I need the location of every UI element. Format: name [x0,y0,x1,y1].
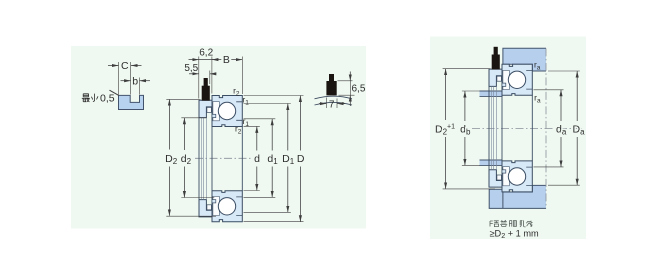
impulse ring [207,107,212,112]
note 端盖的孔径 (drawn glyphs) [490,220,533,227]
seal slot [213,102,219,121]
svg-text:d: d [254,153,260,165]
dimension da [534,90,564,167]
housing lower block [489,185,546,208]
diameter dimension D1 [244,104,291,213]
right face [241,127,243,191]
centerline [472,127,584,129]
min 0,5 leader [110,90,120,95]
sensor flange [199,200,212,217]
svg-text:7: 7 [329,99,335,110]
svg-text:0,5: 0,5 [100,93,115,105]
outer+inner ring block [212,191,242,222]
left panel background [71,46,366,229]
dim 5,5 [189,73,199,75]
centerline [195,157,251,159]
diameter dimension D [244,96,304,222]
housing break line [545,48,547,208]
sensor cable plug [204,78,208,86]
housing upper block [503,48,546,71]
outer+inner ring block [212,96,242,127]
dimension 7 [319,98,345,109]
raceway lines [236,197,242,216]
seal slot [213,196,219,215]
dim B [231,59,242,61]
ball [218,102,235,119]
inner ring left face [211,127,213,191]
outer ring surface arcs [315,96,353,99]
svg-text:6,5: 6,5 [352,84,366,95]
sensor flange [199,100,212,117]
plug [329,74,334,81]
dimension C [108,62,142,95]
diameter dimension d2 [181,118,214,198]
connecting faces right drawing [489,86,532,169]
flange cylinder face [198,118,200,200]
svg-text:b: b [132,76,138,88]
flange step [212,200,216,203]
extension lines [199,57,243,99]
dimension db [462,91,480,165]
housing block with cable slot [119,95,144,109]
svg-text:B: B [223,54,230,66]
bearing sections (reuse) [489,47,532,96]
connecting faces [199,118,242,200]
dimension D2+1 [443,69,495,189]
shaft shoulder upper [480,91,503,96]
shaft shoulder lower [480,160,503,165]
diameter dimension d1 [244,119,276,198]
svg-text:6,2: 6,2 [199,48,213,59]
ball [218,198,235,215]
dimension Da [548,71,580,185]
end cap joint line [502,189,504,208]
dimension 6,2 / B / 5,5 [189,57,243,99]
dimension 6,5 [338,72,355,107]
diameter dimension d [244,126,260,190]
cable groove lines [200,118,202,200]
impulse ring [207,205,212,210]
raceway lines [236,102,242,121]
svg-text:D: D [297,153,305,165]
diameter dimension D2 [166,99,216,216]
upper bearing section [199,78,242,127]
svg-text:5,5: 5,5 [184,63,198,74]
lower bearing section [199,191,242,222]
text 最小 0,5 [82,94,98,102]
dim 6,2 [189,59,199,61]
svg-text:C: C [121,60,129,72]
dimension b [121,78,151,95]
flange step [212,114,216,117]
right panel background [430,37,586,240]
